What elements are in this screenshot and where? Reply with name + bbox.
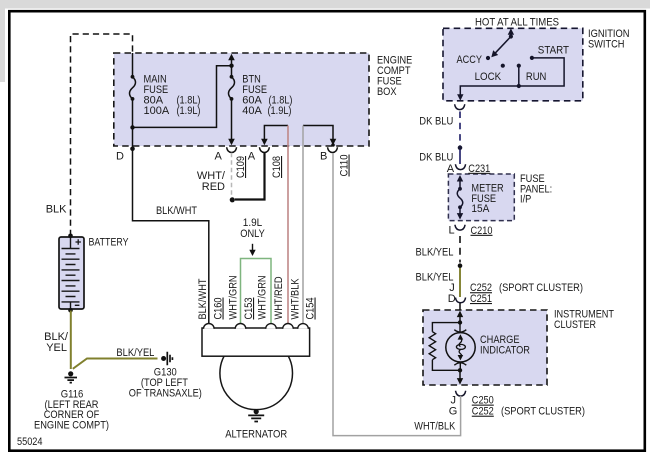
arrow: ignition output through box edge — [457, 94, 463, 101]
svg-text:C231: C231 — [468, 163, 490, 175]
node: battery negative terminal dot — [68, 308, 73, 313]
lamp socket arc bottom — [454, 363, 466, 365]
wire: DK BLU solid to C231 — [459, 150, 461, 165]
svg-text:ONLY: ONLY — [240, 228, 265, 240]
gray scan band left — [0, 0, 5, 82]
connector arc C250 — [456, 391, 466, 396]
svg-text:40A: 40A — [242, 105, 262, 117]
wire: DK BLU dashed from ignition to C231 — [459, 112, 461, 146]
arrow up to box top on btn branch — [228, 54, 235, 61]
node: splice dot — [230, 197, 235, 202]
wire: WHT/BLK from fuse box pin B to C250 — [333, 153, 461, 436]
svg-text:BLK/WHT: BLK/WHT — [197, 278, 209, 319]
node: dot at pin B on box edge — [331, 143, 335, 147]
wire: link from main fuse to btn fuse inside box — [133, 66, 232, 128]
svg-text:DK BLU: DK BLU — [419, 116, 453, 128]
arrow: 1.9L only pointer — [252, 244, 254, 251]
svg-text:CLUSTER: CLUSTER — [554, 319, 596, 331]
connector arc C109 — [227, 147, 237, 152]
lamp socket arc top — [454, 330, 466, 332]
svg-text:C251: C251 — [470, 293, 492, 305]
svg-text:DK BLU: DK BLU — [419, 151, 453, 163]
svg-text:OF TRANSAXLE): OF TRANSAXLE) — [129, 388, 202, 400]
svg-text:HOT AT ALL TIMES: HOT AT ALL TIMES — [475, 17, 559, 29]
svg-text:ACCY: ACCY — [457, 54, 483, 66]
wire: WHT/RED to alternator — [287, 126, 289, 324]
gray scan band top — [0, 0, 650, 9]
wire: lamp to bottom junction — [459, 362, 461, 370]
connector arc C251 — [455, 298, 465, 303]
wire: BLK/WHT from pin D to alternator — [133, 149, 209, 323]
node: RUN contact dot — [517, 64, 521, 68]
svg-text:START: START — [538, 45, 569, 57]
engine compt fuse box body — [114, 53, 369, 146]
svg-text:(1.9L): (1.9L) — [177, 105, 201, 117]
svg-text:15A: 15A — [471, 203, 490, 215]
svg-text:WHT/GRN: WHT/GRN — [228, 275, 240, 319]
node: DK BLU splice dot — [458, 145, 463, 150]
wire: WHT/BLK to alternator — [302, 126, 304, 324]
node: junction dot RUN to output — [517, 84, 521, 88]
svg-text:G: G — [449, 405, 458, 417]
wire: entry into instrument cluster — [459, 303, 461, 310]
ignition switch wiper arm with arrows — [510, 34, 512, 37]
wire: WHT/RED from C108 to splice — [235, 153, 265, 200]
svg-text:(SPORT CLUSTER): (SPORT CLUSTER) — [501, 406, 585, 418]
svg-text:C153: C153 — [243, 298, 255, 320]
svg-text:BATTERY: BATTERY — [89, 237, 130, 249]
fuse F3 METER FUSE element — [457, 189, 463, 208]
node: cluster bottom junction dot — [458, 368, 462, 372]
wire: branch to resistor — [432, 323, 460, 332]
ground G130 — [161, 356, 166, 361]
wire: hot-at-all-times dashed feed from battery to fuse box — [71, 34, 133, 236]
svg-text:ALTERNATOR: ALTERNATOR — [225, 429, 287, 441]
svg-text:BLK/WHT: BLK/WHT — [156, 205, 197, 217]
svg-text:RUN: RUN — [526, 71, 547, 83]
svg-text:BLK/YEL: BLK/YEL — [116, 347, 154, 359]
svg-text:A: A — [215, 151, 223, 163]
svg-text:I/P: I/P — [520, 194, 531, 206]
wire: WHT/GRN 1.9L jumper bracket — [241, 259, 272, 324]
node: junction dot on btn fuse line — [229, 63, 233, 67]
resistor R1 zigzag — [429, 332, 435, 360]
battery plates — [62, 238, 80, 309]
svg-text:BLK/YEL: BLK/YEL — [416, 272, 454, 284]
svg-text:(1.9L): (1.9L) — [268, 105, 292, 117]
meter fuse feed arrow up — [459, 181, 461, 189]
svg-text:L: L — [449, 225, 455, 237]
svg-text:BOX: BOX — [377, 86, 397, 98]
wire: goalpost link to pin A C108 — [264, 126, 288, 140]
arrow down to pin A C109 — [228, 139, 235, 146]
svg-text:C110: C110 — [339, 155, 351, 177]
connector arc C108 — [259, 147, 269, 152]
svg-text:A: A — [447, 163, 455, 175]
svg-text:D: D — [448, 293, 456, 305]
wire: btn fuse branch with arrows — [231, 60, 233, 140]
svg-text:55024: 55024 — [17, 436, 43, 448]
svg-text:ENGINE COMPT): ENGINE COMPT) — [34, 420, 109, 432]
fuse panel I/P box body — [448, 174, 514, 221]
lamp internal filament lead with arrows and loop — [458, 334, 464, 339]
svg-text:C154: C154 — [305, 298, 317, 320]
svg-text:C109: C109 — [235, 156, 247, 178]
connector arc below ignition switch — [455, 104, 465, 109]
svg-text:100A: 100A — [144, 105, 170, 117]
node: pin D junction dot — [130, 147, 135, 152]
connector arc C210 — [455, 225, 465, 230]
wire: RUN contact drop — [518, 66, 520, 86]
alternator connector bar — [202, 328, 310, 356]
svg-text:BLK: BLK — [46, 204, 67, 216]
battery B1 body — [59, 237, 84, 309]
svg-text:C160: C160 — [213, 298, 225, 320]
svg-text:C210: C210 — [471, 225, 493, 237]
wire: cluster output with down arrow — [459, 370, 461, 378]
node: LOCK contact dot — [501, 64, 505, 68]
svg-text:SWITCH: SWITCH — [588, 39, 625, 51]
svg-text:RED: RED — [202, 181, 225, 193]
pin bump 1 (C160) — [204, 324, 215, 329]
svg-text:BLK/YEL: BLK/YEL — [416, 247, 454, 259]
node: junction dot on main fuse line — [130, 125, 134, 129]
ground G116 — [68, 371, 73, 376]
connector arc C110 — [328, 147, 338, 152]
svg-text:(SPORT CLUSTER): (SPORT CLUSTER) — [499, 282, 583, 294]
ground symbol at alternator — [254, 409, 259, 414]
meter fuse exit arrow down — [459, 207, 461, 214]
svg-text:B: B — [320, 151, 327, 163]
svg-text:INDICATOR: INDICATOR — [480, 344, 530, 356]
svg-text:C108: C108 — [271, 156, 283, 178]
node: BLK/YEL splice dot — [458, 263, 463, 268]
alternator G1 body circle — [220, 337, 293, 410]
wire: BLK/YEL solid to cluster — [459, 268, 461, 297]
wire: goalpost link to pin B C110 — [303, 126, 333, 140]
wire: START feed to ignition output — [460, 58, 564, 95]
ignition switch box body — [443, 28, 583, 101]
charge indicator lamp circle — [446, 333, 475, 362]
wire: BLK/YEL battery to G116 — [70, 311, 72, 370]
svg-text:WHT/BLK: WHT/BLK — [290, 278, 302, 320]
pin bump 5 (C154) — [298, 324, 309, 329]
wire: BLK/YEL branch to G130 — [73, 359, 158, 369]
pin bump 2 — [235, 324, 246, 329]
svg-text:WHT/GRN: WHT/GRN — [257, 275, 269, 319]
svg-text:YEL: YEL — [46, 342, 67, 354]
svg-text:C252: C252 — [472, 406, 494, 418]
node: START contact dot — [530, 56, 534, 60]
arrow down to pin B — [330, 139, 337, 146]
arrow down to pin A C108 — [261, 139, 268, 146]
instrument cluster box body — [423, 310, 547, 385]
connector arc C231 — [455, 164, 465, 169]
wire: dashed WHT/RED from C109 (1.8L) — [231, 153, 233, 198]
pin bump 3 — [266, 324, 277, 329]
svg-text:A: A — [248, 151, 256, 163]
wire: BLK/YEL dashed from C210 — [459, 236, 461, 263]
battery minus sign — [75, 304, 80, 306]
wire: resistor bottom link — [432, 360, 460, 371]
svg-text:WHT/BLK: WHT/BLK — [414, 421, 456, 433]
pin bump 4 — [283, 324, 294, 329]
wire: main fuse feed inside box — [132, 53, 134, 149]
fuse F2 BTN FUSE element — [229, 77, 235, 99]
node: wiper pivot dot — [509, 34, 513, 38]
arrow: into cluster pointing up at top edge — [457, 311, 463, 318]
svg-text:WHT/RED: WHT/RED — [273, 276, 285, 319]
node: battery positive terminal dot — [68, 234, 73, 239]
node: ACCY contact dot — [486, 56, 490, 60]
wire: lamp feed — [459, 323, 461, 333]
svg-text:LOCK: LOCK — [475, 71, 502, 83]
svg-text:D: D — [116, 151, 124, 163]
node: cluster top junction dot — [458, 320, 462, 324]
battery plus sign — [76, 239, 81, 244]
fuse F1 MAIN FUSE element — [130, 77, 136, 99]
